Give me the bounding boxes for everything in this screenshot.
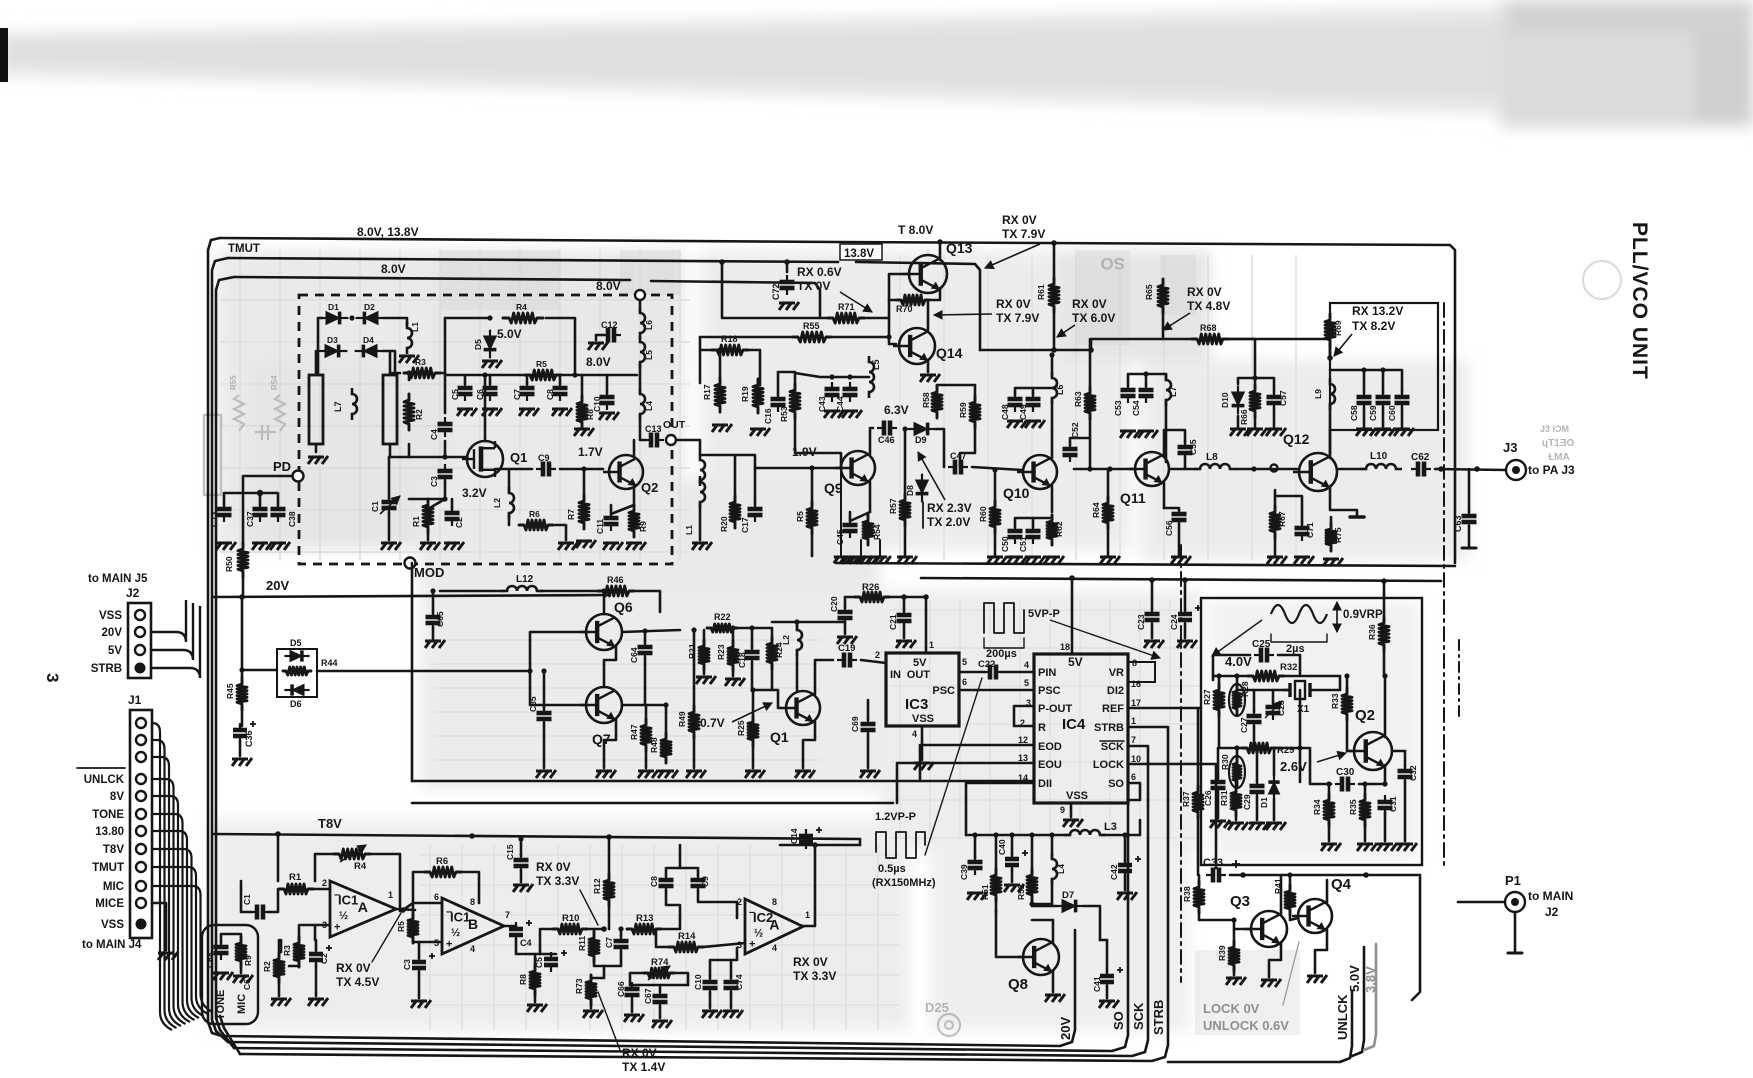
- svg-text:R6: R6: [436, 856, 448, 867]
- svg-text:C66: C66: [616, 981, 626, 997]
- capacitor C55: [1178, 440, 1193, 460]
- svg-text:J1: J1: [128, 693, 142, 707]
- diode D5 mod: [284, 650, 309, 661]
- wire C41 link: [1100, 939, 1107, 942]
- svg-text:R12: R12: [592, 878, 602, 894]
- resistor R31: [1231, 786, 1241, 816]
- wire C60 b: [1401, 407, 1404, 428]
- wire bar2 bot: [389, 444, 392, 457]
- svg-text:–: –: [749, 907, 755, 919]
- svg-text:5: 5: [962, 657, 967, 667]
- ground R1: [420, 542, 440, 550]
- wire D2 to L1: [384, 318, 407, 324]
- capacitor C33: [1206, 868, 1226, 883]
- wire P1 left: [1458, 901, 1505, 904]
- J1 pin 2: [136, 735, 146, 745]
- svg-text:C48: C48: [1000, 404, 1010, 420]
- wire bar2 top: [389, 351, 392, 375]
- resonator bar 2: [383, 375, 397, 444]
- junction supply 1054: [1051, 347, 1057, 353]
- J2 pin STRB: [135, 663, 146, 674]
- wire R74 left: [630, 973, 643, 985]
- svg-text:C59: C59: [1368, 405, 1378, 421]
- wire R49 t: [693, 630, 696, 710]
- wire C12 left: [596, 334, 604, 337]
- svg-text:C33: C33: [1203, 857, 1223, 869]
- svg-text:R67: R67: [1277, 511, 1287, 527]
- svg-text:R50: R50: [224, 556, 234, 572]
- wire R34 b: [1328, 822, 1331, 841]
- wire L2 b: [796, 651, 799, 690]
- svg-text:C37: C37: [245, 511, 255, 527]
- wire R53 top: [778, 372, 795, 390]
- wire C63 b: [1468, 526, 1471, 548]
- svg-text:ɥT1ƎO: ɥT1ƎO: [1542, 438, 1574, 449]
- wire Q7 emitter: [604, 719, 616, 768]
- junction D10 row: [1252, 375, 1257, 380]
- wire C55 b: [1184, 457, 1187, 469]
- wire C1 to R1: [268, 889, 278, 912]
- ground R66: [1247, 428, 1267, 436]
- capacitor C45: [843, 518, 858, 538]
- wire J1 harness 9: [152, 886, 213, 1012]
- svg-text:R70: R70: [896, 304, 913, 314]
- svg-text:IC1: IC1: [338, 893, 358, 908]
- svg-text:18: 18: [1060, 642, 1070, 652]
- j C33 b: [1363, 872, 1369, 878]
- wire R64 b: [1107, 525, 1110, 556]
- capacitor C4: [438, 417, 453, 437]
- wire R48 t: [665, 705, 668, 739]
- wire R18 right: [748, 350, 760, 385]
- resistor R13: [627, 924, 661, 934]
- wire J1 harness 6: [152, 831, 199, 1018]
- ground C53: [1120, 430, 1140, 438]
- wire C18 t: [751, 628, 754, 648]
- resistor R71: [828, 313, 864, 323]
- wire R8 top: [581, 375, 584, 398]
- svg-text:C1: C1: [242, 894, 252, 905]
- wire C29 b: [1256, 796, 1259, 820]
- wire C12 gnd stub: [595, 335, 598, 340]
- ground C37: [252, 542, 272, 550]
- wire R75 t: [1330, 517, 1333, 528]
- svg-text:R69: R69: [1333, 320, 1343, 336]
- ground C74: [723, 1010, 743, 1018]
- svg-text:8.0V: 8.0V: [381, 262, 406, 276]
- wire R1 bot: [427, 534, 430, 540]
- svg-text:C3: C3: [429, 476, 439, 487]
- wire X1 right: [1310, 676, 1340, 690]
- svg-text:C72: C72: [771, 283, 781, 300]
- capacitor C10 audio: [703, 975, 718, 995]
- j D5 left: [239, 667, 244, 672]
- wire R6 loop: [413, 872, 442, 903]
- wire C48 C49 top: [1015, 388, 1052, 395]
- j Q2 em: [1382, 781, 1387, 786]
- J2 pin 5V: [135, 645, 145, 655]
- resistor R5: [525, 370, 561, 380]
- wire C30 right: [1359, 783, 1385, 786]
- ground Q14: [920, 374, 940, 382]
- j C24: [1182, 577, 1188, 583]
- capacitor C7 audio: [614, 934, 629, 954]
- svg-text:C5: C5: [450, 389, 460, 400]
- svg-text:R45: R45: [225, 683, 235, 699]
- wire R70 left: [889, 299, 897, 302]
- j Q6 col: [601, 588, 606, 593]
- ground D1: [1266, 822, 1286, 830]
- capacitor C10: [600, 390, 615, 410]
- svg-text:TX 4.5V: TX 4.5V: [336, 975, 379, 989]
- svg-text:SO: SO: [1100, 254, 1125, 273]
- svg-text:10: 10: [1131, 754, 1141, 764]
- wire MICE stub: [152, 903, 166, 950]
- svg-text:R71: R71: [838, 302, 855, 312]
- wire bottom bus 20V: [222, 930, 1075, 1046]
- svg-text:R55: R55: [229, 375, 238, 390]
- wire diode left join: [317, 318, 320, 375]
- junction R71 bus2: [719, 259, 725, 265]
- svg-text:R64: R64: [1091, 502, 1101, 518]
- wire C42 b: [1124, 875, 1127, 890]
- junction R17: [717, 347, 722, 352]
- wire audio top link: [859, 839, 862, 845]
- resistor R4: [503, 313, 543, 323]
- J1 pin 10 MIC: [136, 881, 146, 891]
- j R34: [1326, 781, 1331, 786]
- svg-text:13.8V: 13.8V: [844, 248, 874, 260]
- resistor R3 audio: [294, 937, 304, 967]
- wire R29 left: [1219, 712, 1243, 748]
- resistor R41: [1285, 885, 1295, 915]
- wire R55 row: [700, 336, 795, 339]
- svg-text:C69: C69: [850, 716, 860, 732]
- wire R55 drop: [699, 337, 702, 350]
- inductor L1: [407, 322, 412, 354]
- svg-text:D8: D8: [905, 485, 915, 496]
- wire Q9 emitter: [869, 482, 872, 512]
- wire R13 right: [661, 918, 680, 929]
- wire C56 b: [1178, 524, 1181, 556]
- wire L column top: [639, 300, 642, 312]
- capacitor C3: [438, 464, 453, 484]
- wire RF bottom line: [836, 563, 1455, 566]
- resistor R2: [404, 394, 414, 430]
- svg-text:LOCK: LOCK: [1093, 759, 1124, 771]
- P1 center: [1511, 898, 1519, 906]
- capacitor C23: [1145, 607, 1160, 627]
- svg-text:C46: C46: [878, 435, 895, 445]
- j IC2A out: [812, 842, 818, 848]
- wire R8a t: [534, 954, 537, 971]
- ground R19: [750, 428, 770, 436]
- capacitor C16: [771, 392, 786, 412]
- svg-text:P-OUT: P-OUT: [1038, 703, 1073, 715]
- junction Q11 base b: [1107, 466, 1112, 471]
- svg-text:C74: C74: [734, 974, 744, 990]
- j C42: [1122, 832, 1127, 837]
- wire bus3 left: [216, 277, 234, 1048]
- wire base col: [1299, 690, 1302, 782]
- resistor R18: [712, 345, 748, 355]
- diode D6: [284, 684, 309, 695]
- wire lock col: [1412, 875, 1420, 1000]
- resistor R17: [715, 378, 725, 412]
- capacitor C47: [948, 460, 968, 475]
- wire bus2 13.8V: [228, 258, 838, 262]
- wire outer border left: [208, 238, 222, 1036]
- capacitor C57: [1267, 390, 1282, 410]
- wire C14 row: [780, 844, 860, 847]
- svg-text:RX 0.6V: RX 0.6V: [797, 265, 842, 279]
- wire Q4 emitter: [1315, 930, 1327, 973]
- j R33: [1344, 673, 1349, 678]
- svg-text:A: A: [358, 899, 368, 915]
- j R30: [1234, 745, 1239, 750]
- wire R64 v: [1107, 469, 1110, 501]
- ground R48: [658, 770, 678, 778]
- ground C10: [599, 412, 619, 420]
- capacitor C37: [253, 502, 268, 522]
- wire D9 to C47: [936, 429, 944, 467]
- wire J1 harness 7: [152, 849, 204, 1016]
- capacitor C68: [214, 940, 229, 960]
- svg-text:EOU: EOU: [1038, 759, 1062, 771]
- IC U IC3: [886, 653, 959, 726]
- wire bar2 gate: [390, 456, 445, 459]
- wire Q3 base: [1234, 920, 1250, 929]
- ground R25: [745, 770, 765, 778]
- ground C38: [270, 542, 290, 550]
- ground C1: [381, 542, 401, 550]
- wire Q6 collector: [603, 591, 606, 614]
- wire X1 left: [1284, 689, 1290, 692]
- svg-text:C9: C9: [538, 453, 550, 463]
- wire C23 t: [1151, 580, 1154, 610]
- ground C32: [1397, 843, 1417, 851]
- J1 pin VSS: [136, 919, 147, 930]
- wire J2 harness 1: [152, 603, 193, 660]
- svg-text:C24: C24: [1169, 614, 1179, 630]
- svg-text:C1: C1: [370, 501, 380, 512]
- wire R12 b: [608, 902, 611, 929]
- svg-text:MIC: MIC: [236, 994, 248, 1014]
- wire R2a b: [278, 977, 281, 996]
- wire C15 t: [520, 839, 523, 856]
- ground C48: [1007, 420, 1027, 428]
- divider dashdot mid: [1180, 545, 1182, 982]
- svg-text:RX 0V: RX 0V: [793, 955, 828, 969]
- junction R5rf: [809, 465, 814, 470]
- wire C5a t: [550, 954, 553, 955]
- ground R9 vco: [626, 542, 646, 550]
- j C18: [749, 625, 754, 630]
- capacitor C1 audio: [250, 905, 270, 920]
- ground C50: [1007, 556, 1027, 564]
- wire C29 t: [1256, 748, 1259, 782]
- wire row375: [445, 374, 637, 377]
- wire bottom bus 5V: [1352, 947, 1364, 1056]
- wire C67 b: [659, 1006, 662, 1018]
- j Q6 out: [642, 628, 647, 633]
- wire R67 b: [1274, 534, 1277, 556]
- wire C8 c9 mid: [679, 845, 682, 868]
- inductor L4 pll: [1052, 853, 1057, 885]
- svg-text:PD: PD: [273, 459, 291, 474]
- wire OUT to xfmr: [676, 440, 700, 455]
- svg-text:RX 2.3V: RX 2.3V: [927, 501, 972, 515]
- ground R31: [1228, 822, 1248, 830]
- svg-text:TONE: TONE: [215, 990, 227, 1020]
- wire D1 b: [1273, 799, 1276, 820]
- svg-text:Q3: Q3: [1230, 893, 1250, 910]
- wire Q10 emitter: [1051, 486, 1054, 512]
- wire J1 harness 5: [152, 814, 195, 1020]
- resistor R22: [707, 624, 737, 632]
- capacitor C59: [1376, 390, 1391, 410]
- wire C74 b: [730, 992, 733, 1008]
- svg-text:R32: R32: [1280, 662, 1297, 673]
- wire R14 right: [703, 943, 745, 947]
- wire C69 b: [867, 734, 870, 768]
- j L4: [1049, 832, 1054, 837]
- wire LOCK line: [1128, 764, 1216, 868]
- capacitor C42: [1118, 858, 1132, 878]
- svg-text:R27: R27: [1202, 689, 1212, 705]
- resistor R73: [586, 975, 596, 1005]
- wire gnd stub 861: [860, 540, 862, 556]
- svg-text:TX 6.0V: TX 6.0V: [1072, 311, 1115, 325]
- wire R31 b: [1235, 813, 1238, 820]
- ground R39: [1226, 977, 1246, 985]
- transistor Q12: [1293, 453, 1337, 491]
- svg-text:IN: IN: [890, 669, 901, 681]
- svg-text:C30: C30: [1336, 767, 1355, 778]
- svg-text:2µs: 2µs: [1286, 643, 1305, 655]
- svg-text:R44: R44: [321, 658, 338, 668]
- wire Q1 to C9: [495, 468, 532, 471]
- resistor R52: [1027, 869, 1037, 901]
- svg-text:C4: C4: [429, 429, 439, 440]
- ground IC4: [1063, 819, 1083, 827]
- wire diode row top: [318, 317, 322, 320]
- resistor R25: [748, 716, 758, 746]
- svg-text:Q2: Q2: [1355, 707, 1375, 724]
- ground C3a: [411, 1000, 431, 1008]
- svg-text:Q2: Q2: [641, 480, 658, 495]
- wire Q6 emitter: [604, 646, 616, 687]
- wire R48 link: [646, 704, 666, 707]
- resistor R32: [1248, 671, 1284, 681]
- svg-text:C62: C62: [1411, 452, 1430, 463]
- svg-text:R7: R7: [566, 509, 576, 520]
- svg-text:C53: C53: [1113, 400, 1123, 416]
- j R28: [1234, 673, 1239, 678]
- wire R30 t: [1236, 748, 1239, 763]
- ground L1: [399, 355, 419, 363]
- diode D4: [355, 345, 384, 358]
- J2 pin 20V: [135, 627, 145, 637]
- svg-text:PSC: PSC: [1038, 685, 1061, 697]
- svg-text:PSC: PSC: [932, 685, 955, 697]
- wire R60 v: [994, 470, 997, 505]
- wire bottom bus SO: [228, 800, 1128, 1051]
- j IC1A out: [400, 907, 406, 913]
- C1 arrow: [380, 496, 400, 514]
- ground C71: [1294, 556, 1314, 564]
- wire R14 left: [656, 929, 669, 947]
- capacitor C7: [520, 381, 535, 401]
- svg-text:DI2: DI2: [1107, 685, 1124, 697]
- wire bus3 8.0V: [234, 277, 630, 280]
- wire mod box left: [411, 563, 414, 781]
- svg-text:TX 7.9V: TX 7.9V: [1002, 227, 1045, 241]
- wire D10 top row: [1238, 378, 1274, 393]
- capacitor C5 audio: [544, 952, 558, 972]
- capacitor C40: [1005, 852, 1019, 872]
- svg-text:–: –: [334, 889, 340, 901]
- wire R8a b: [534, 989, 537, 1002]
- resistor R46: [598, 586, 634, 596]
- j R41: [1287, 872, 1292, 877]
- svg-text:R75: R75: [1333, 527, 1343, 543]
- wire L12 to R46: [540, 590, 598, 593]
- svg-text:C73: C73: [209, 511, 219, 527]
- wire R3a link: [280, 940, 283, 952]
- wire R4 left: [315, 854, 334, 881]
- svg-text:MICE: MICE: [95, 898, 124, 910]
- svg-text:6: 6: [434, 892, 439, 902]
- ground C58: [1356, 428, 1376, 436]
- ground R62: [1044, 556, 1064, 564]
- svg-text:C56: C56: [1164, 520, 1174, 536]
- resistor R62: [1047, 515, 1057, 545]
- wire R66 top: [1254, 378, 1257, 390]
- svg-text:C32: C32: [1408, 765, 1418, 781]
- wire R33 t: [1346, 676, 1349, 692]
- svg-text:D4: D4: [363, 335, 374, 345]
- junction R3 R2: [406, 370, 411, 375]
- capacitor C36: [233, 723, 247, 743]
- resistor R26: [855, 592, 889, 602]
- ground Q1mod: [795, 770, 815, 778]
- svg-text:7: 7: [1131, 735, 1136, 745]
- resistor R49: [689, 706, 699, 738]
- wire C43 C44 top: [795, 373, 869, 377]
- svg-text:VSS: VSS: [1066, 790, 1088, 802]
- svg-text:RX 0V: RX 0V: [1002, 213, 1037, 227]
- J1 pin 11 MICE: [136, 898, 146, 908]
- wire R50top to rail: [242, 574, 245, 597]
- wire R65 bot: [1162, 307, 1165, 339]
- wire R2a t: [278, 940, 281, 958]
- capacitor C35: [537, 706, 552, 726]
- wire R37 t: [1197, 708, 1200, 790]
- svg-text:R37: R37: [1181, 791, 1191, 807]
- wire C9 b: [698, 890, 737, 918]
- wire xfmr bot: [699, 503, 702, 540]
- capacitor C22: [983, 665, 1003, 680]
- ground C67: [652, 1020, 672, 1028]
- transistor Q9: [835, 451, 875, 485]
- svg-text:C40: C40: [997, 839, 1007, 855]
- svg-text:R33: R33: [1330, 693, 1340, 709]
- resistor R1 audio: [279, 884, 313, 894]
- ground C2a: [308, 998, 328, 1006]
- svg-text:TX 8.2V: TX 8.2V: [1352, 319, 1395, 333]
- connector J3: [1506, 460, 1526, 480]
